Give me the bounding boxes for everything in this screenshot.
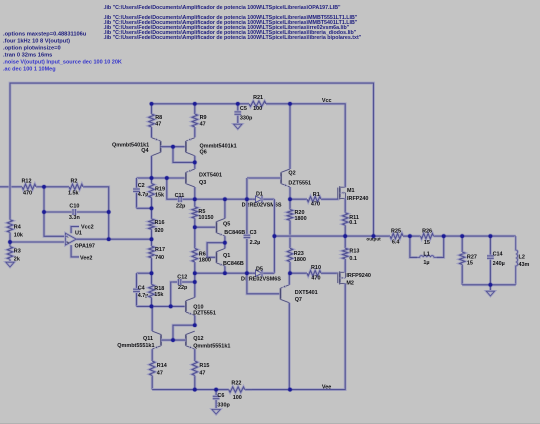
wire outer feedback loop (10, 83, 374, 236)
svg-text:Q6: Q6 (200, 150, 207, 156)
wire R4/R3 node to opamp + input (10, 241, 65, 244)
svg-text:C5: C5 (240, 106, 247, 112)
svg-text:C12: C12 (177, 274, 187, 280)
transistor Q11 Qmmbt5551k1 (117, 331, 161, 349)
node base tie (170, 144, 175, 149)
svg-text:IRFP9240: IRFP9240 (346, 273, 370, 279)
node R18 bottom / Q11 collector (149, 304, 154, 309)
svg-text:DXT5401: DXT5401 (295, 290, 318, 296)
node Q2 emitter / R1 / R20 (287, 197, 292, 202)
wire rail to zobel (444, 235, 516, 238)
resistor R18 (149, 273, 164, 306)
svg-text:BC846B: BC846B (223, 261, 244, 267)
node R23 bottom / lower rail (287, 271, 292, 276)
net label output (366, 236, 381, 241)
svg-text:C6: C6 (217, 393, 224, 399)
svg-text:R22: R22 (231, 381, 241, 387)
wire Q12 emitter to R15 (193, 349, 196, 360)
node C12 right (192, 279, 197, 284)
capacitor C14 (487, 236, 505, 285)
ground below R3 (6, 259, 14, 267)
wire Q7 emitter (288, 273, 291, 285)
svg-text:4.7µ: 4.7µ (138, 192, 149, 198)
wire Q2 emitter (289, 187, 292, 199)
capacitor C11 (168, 193, 195, 210)
svg-text:330p: 330p (217, 403, 230, 409)
svg-text:C4: C4 (138, 286, 145, 292)
capacitor C5 (234, 104, 253, 124)
svg-text:R25: R25 (391, 228, 401, 234)
svg-text:Q3: Q3 (199, 180, 206, 186)
wire Q7 base loop (247, 273, 281, 294)
ground below C5 (234, 124, 242, 129)
resistor R6 (192, 227, 211, 273)
svg-text:C10: C10 (69, 204, 79, 210)
svg-text:DXT5401: DXT5401 (199, 173, 222, 179)
svg-text:Q4: Q4 (141, 148, 148, 154)
transistor Q2 DZT5551 (281, 169, 311, 187)
node R19 top / Q4 collector (149, 175, 154, 180)
svg-text:M1: M1 (347, 188, 355, 194)
node R15 bottom (192, 387, 197, 392)
resistor R11 (343, 207, 359, 236)
transistor Q7 DXT5401 (281, 285, 318, 303)
spice directives (.options/.four/.option/.tran/.noise/.ac) (3, 31, 122, 72)
svg-text:1800: 1800 (199, 258, 211, 264)
node output rail / R11 bottom (343, 234, 348, 239)
node R27 top (460, 234, 465, 239)
wire tie to Q6 collector (173, 147, 195, 163)
node Q2 collector at vcc (287, 101, 292, 106)
node D1 anode / C3 / Q2 base (244, 197, 249, 202)
net label Vcc (322, 98, 332, 104)
node C6 tap (214, 387, 219, 392)
svg-text:R2: R2 (71, 179, 78, 185)
svg-text:D5: D5 (256, 266, 263, 272)
node Q10 emitter / Q12 collector (192, 323, 197, 328)
spice directive .lib lines (104, 5, 362, 41)
wire M1 source to R11 (344, 198, 347, 207)
svg-text:240µ: 240µ (493, 261, 505, 267)
svg-text:Q12: Q12 (193, 336, 203, 342)
svg-text:.lib "C:\Users\Fede\Documents\: .lib "C:\Users\Fede\Documents\Amplificad… (104, 35, 362, 41)
transistor Q4 Qmmbt5401k1 (112, 138, 161, 156)
wire Q1 base loop (207, 243, 225, 258)
resistor R8 (149, 104, 162, 138)
node C11 branch (164, 175, 169, 180)
svg-text:R6: R6 (199, 251, 206, 257)
node Q3 collector / upper bias rail (192, 197, 197, 202)
transistor Q5 BC846B (217, 218, 246, 236)
wire R21 to vcc corner (266, 104, 345, 186)
svg-text:Q2: Q2 (288, 170, 295, 176)
wire Q11/Q12 base tie (161, 339, 186, 342)
svg-text:R5: R5 (198, 209, 205, 215)
svg-text:Q5: Q5 (223, 221, 230, 227)
wire M2 drain to vee (344, 284, 347, 293)
svg-text:100: 100 (233, 395, 242, 401)
svg-text:R9: R9 (200, 115, 207, 121)
wire Q4 collector (150, 156, 153, 178)
resistor R3 (7, 242, 20, 262)
wire Q5 emitter to node (223, 236, 226, 243)
node opamp output (106, 237, 111, 242)
ground below C14 (486, 285, 494, 296)
svg-text:DZT5551: DZT5551 (288, 180, 311, 186)
svg-text:R26: R26 (422, 229, 432, 235)
svg-text:1.5k: 1.5k (68, 190, 80, 196)
node D5 anode / C3 bottom (244, 271, 249, 276)
svg-text:15k: 15k (154, 292, 164, 298)
svg-text:D1: D1 (256, 192, 263, 198)
svg-text:15: 15 (467, 261, 473, 267)
svg-text:Vee: Vee (322, 385, 331, 391)
svg-text:R14: R14 (157, 363, 167, 369)
net label Vee (322, 385, 331, 391)
svg-text:BC846B: BC846B (224, 230, 245, 236)
svg-text:R12: R12 (22, 179, 32, 185)
svg-text:Qmmbt5551k1: Qmmbt5551k1 (117, 343, 154, 349)
resistor R2 (68, 179, 90, 197)
node C14 top (488, 234, 493, 239)
svg-text:R18: R18 (154, 286, 164, 292)
svg-text:U1: U1 (75, 231, 82, 237)
svg-text:Vcc2: Vcc2 (81, 225, 94, 231)
op-amp U1 OPA197 (65, 225, 95, 262)
svg-text:R8: R8 (155, 115, 162, 121)
wire D1 cathode down (273, 199, 276, 273)
wire C12 branch (171, 282, 173, 306)
node C10 left (41, 209, 46, 214)
svg-text:1µ: 1µ (423, 260, 429, 266)
wire Q2 base drop to D1 node (245, 178, 248, 199)
node Q5 emitter / Q1 collector+base (222, 240, 227, 245)
wire Q10 emitter (193, 315, 196, 325)
svg-text:M2: M2 (346, 281, 354, 287)
wire Q2 collector (289, 104, 292, 169)
svg-text:C14: C14 (493, 251, 503, 257)
node box1 bottom (149, 206, 154, 211)
wire R22 to vee corner (252, 292, 345, 390)
svg-text:Q10: Q10 (193, 304, 203, 310)
svg-text:.options maxstep=0.48831106u: .options maxstep=0.48831106u (3, 31, 87, 37)
wire upper bias rail (195, 198, 252, 201)
wire R10 to M2 gate (336, 273, 338, 275)
capacitor C2 (133, 178, 148, 208)
svg-text:C2: C2 (138, 183, 145, 189)
svg-text:Q11: Q11 (143, 336, 153, 342)
svg-text:R16: R16 (155, 220, 165, 226)
resistor R25 (380, 228, 410, 245)
node input/feedback junction (41, 184, 46, 189)
resistor R23 (287, 236, 306, 273)
resistor R17 (149, 239, 165, 273)
svg-text:470: 470 (23, 190, 32, 196)
svg-text:Q7: Q7 (295, 297, 302, 303)
svg-text:Qmmbt5551k1: Qmmbt5551k1 (193, 343, 230, 349)
svg-text:R17: R17 (155, 247, 165, 253)
svg-text:.four 1kHz 10 8 V(output): .four 1kHz 10 8 V(output) (3, 38, 70, 44)
wire R1 to M1 gate (336, 198, 338, 199)
svg-text:3.3n: 3.3n (69, 215, 80, 221)
mosfet M2 IRFP9240 (338, 271, 371, 286)
wire Q2 base (247, 177, 281, 180)
node Q1 emitter rail (222, 271, 227, 276)
svg-text:.ac dec 100 1 10Meg: .ac dec 100 1 10Meg (3, 66, 56, 72)
resistor R21 (243, 95, 290, 112)
svg-text:0.1: 0.1 (349, 256, 357, 262)
node R26/L1 right (441, 234, 446, 239)
resistor R14 (150, 360, 167, 390)
svg-text:Vcc: Vcc (322, 98, 332, 104)
svg-text:R13: R13 (349, 249, 359, 255)
wire Q10 collector (193, 273, 196, 297)
wire Q1 emitter (223, 266, 226, 273)
resistor R12 (17, 179, 45, 197)
node outer feedback at output (371, 234, 376, 239)
svg-text:740: 740 (155, 255, 164, 261)
wire vcc rail (152, 102, 244, 105)
node R4/R3 junction (7, 239, 12, 244)
wire input line (0, 185, 17, 188)
ground below C6 (212, 405, 220, 415)
node diode cathodes to output (272, 234, 277, 239)
wire vee rail (152, 388, 229, 391)
resistor R26 (410, 229, 444, 247)
svg-text:1800: 1800 (294, 257, 306, 263)
svg-text:920: 920 (155, 228, 164, 234)
node opamp out joins VAS chain (149, 237, 154, 242)
svg-text:R19: R19 (155, 187, 165, 193)
svg-text:.tran 0 32ms 16ms: .tran 0 32ms 16ms (3, 52, 52, 58)
svg-text:+: + (67, 241, 70, 246)
svg-text:470: 470 (311, 276, 320, 282)
wire box1 top (137, 177, 186, 180)
svg-text:R3: R3 (14, 249, 21, 255)
svg-text:Q1: Q1 (223, 253, 230, 259)
transistor Q12 Qmmbt5551k1 (186, 331, 230, 349)
resistor R1 (290, 192, 336, 207)
wire Q5 collector (223, 199, 226, 218)
transistor Q1 BC846B (217, 248, 244, 267)
wire C11 branch (167, 178, 168, 199)
wire output rail (274, 235, 379, 238)
resistor R5 (192, 199, 213, 227)
diode D1 DRRE02VSM6S (242, 192, 282, 209)
wire output net bottom (462, 283, 516, 286)
capacitor C12 (172, 274, 194, 291)
wire lower bias rail (195, 272, 252, 275)
wire tie to Q12 collector (173, 325, 195, 340)
wire box1 bottom (137, 207, 152, 210)
wire L1 left drop (410, 236, 417, 257)
svg-text:22p: 22p (176, 203, 186, 209)
node R5 bottom / Q5 base / R6 top (192, 225, 197, 230)
wire R12 to R2 (44, 185, 69, 188)
node C5 tap (235, 101, 240, 106)
wire Q3 collector (193, 187, 196, 199)
svg-text:C11: C11 (175, 193, 185, 199)
wire M2 source to R13 (344, 266, 347, 272)
node Q6 collector (192, 160, 197, 165)
svg-text:R1: R1 (313, 192, 320, 198)
svg-text:R21: R21 (253, 95, 263, 101)
node box2 top (149, 271, 154, 276)
capacitor C4 (133, 273, 148, 306)
wire Q4/Q6 base tie (161, 145, 186, 148)
svg-text:L1: L1 (423, 251, 429, 257)
resistor R19 (149, 178, 165, 208)
svg-text:22p: 22p (178, 285, 188, 291)
node Q7 collector at vee (287, 387, 292, 392)
wire Q5 base (195, 226, 217, 229)
svg-text:Vee2: Vee2 (80, 256, 92, 262)
wire Q11 emitter to R14 (151, 349, 154, 360)
svg-text:R27: R27 (467, 254, 477, 260)
svg-text:43m: 43m (519, 262, 530, 268)
resistor R4 (7, 220, 23, 242)
resistor R13 (343, 236, 360, 266)
node vcc rail left (149, 101, 154, 106)
svg-text:L2: L2 (519, 255, 525, 261)
svg-text:R10: R10 (311, 265, 321, 271)
svg-text:.noise V(output) Input_source: .noise V(output) Input_source dec 100 10… (3, 59, 122, 65)
svg-text:R15: R15 (199, 363, 209, 369)
wire Q6 collector to Q3 emitter (193, 156, 196, 169)
capacitor C6 (213, 390, 231, 409)
resistor R27 (460, 236, 477, 285)
transistor Q3 DXT5401 (186, 169, 222, 187)
svg-text:R20: R20 (295, 210, 305, 216)
wire Q11 collector (151, 306, 154, 331)
svg-text:0.1: 0.1 (349, 220, 357, 226)
svg-text:15: 15 (424, 240, 430, 246)
wire to opamp - input (44, 212, 65, 236)
svg-text:R4: R4 (14, 224, 21, 230)
capacitor C3 (244, 199, 261, 273)
svg-text:2.2µ: 2.2µ (250, 240, 261, 246)
svg-text:470: 470 (311, 201, 320, 207)
svg-text:47: 47 (200, 122, 206, 128)
svg-text:.option plotwinsize=0: .option plotwinsize=0 (3, 45, 61, 51)
svg-text:OPA197: OPA197 (75, 244, 95, 250)
inductor L2 (516, 236, 530, 285)
wire box2 top (137, 272, 152, 275)
svg-text:.lib "C:\Users\Fede\Documents\: .lib "C:\Users\Fede\Documents\Amplificad… (104, 5, 342, 11)
node R26/L1 left (407, 234, 412, 239)
resistor R10 (290, 265, 336, 282)
capacitor C10 (44, 204, 109, 221)
transistor Q6 Qmmbt5401k1 (186, 138, 237, 156)
resistor R15 (192, 360, 209, 390)
node base tie bottom (170, 338, 175, 343)
wire box2 bottom / Q10 base (137, 305, 186, 308)
svg-text:6.4: 6.4 (392, 240, 400, 246)
node C14 bottom / ground (488, 282, 493, 287)
wire L1 right rise (437, 236, 444, 257)
svg-text:10150: 10150 (198, 215, 213, 221)
wire Q1 collector (223, 243, 226, 249)
node C10 right (106, 209, 111, 214)
wire inverting input vertical (43, 187, 46, 212)
svg-text:47: 47 (199, 370, 205, 376)
svg-text:C3: C3 (250, 230, 257, 236)
inductor L1 (417, 251, 437, 266)
mosfet M1 IRFP240 (338, 186, 369, 202)
svg-text:DZT5551: DZT5551 (193, 311, 216, 317)
svg-text:Qmmbt5401k1: Qmmbt5401k1 (200, 144, 237, 150)
wire R2 to feedback vertical (90, 187, 109, 212)
svg-text:15k: 15k (155, 193, 165, 199)
svg-text:1800: 1800 (295, 216, 307, 222)
wire Q7 collector (288, 303, 291, 390)
svg-text:IRFP240: IRFP240 (347, 196, 368, 202)
resistor R20 (287, 199, 306, 236)
svg-text:10k: 10k (14, 232, 24, 238)
svg-text:330p: 330p (240, 116, 253, 122)
node C12 branch (168, 304, 173, 309)
svg-text:47: 47 (157, 370, 163, 376)
node R9 top (192, 101, 197, 106)
svg-text:100: 100 (253, 106, 262, 112)
resistor R16 (149, 208, 165, 239)
transistor Q10 DZT5551 (186, 297, 216, 316)
diode D5 DRRE02VSM6S (241, 266, 281, 282)
resistor R9 (192, 104, 206, 138)
resistor R22 (216, 381, 252, 401)
wire feedback vertical to opamp out (107, 212, 110, 239)
node Q5 collector (222, 197, 227, 202)
wire opamp output (76, 238, 151, 241)
wire M1 drain (344, 186, 347, 187)
node R6 bottom rail (192, 271, 197, 276)
svg-text:47: 47 (155, 122, 161, 128)
